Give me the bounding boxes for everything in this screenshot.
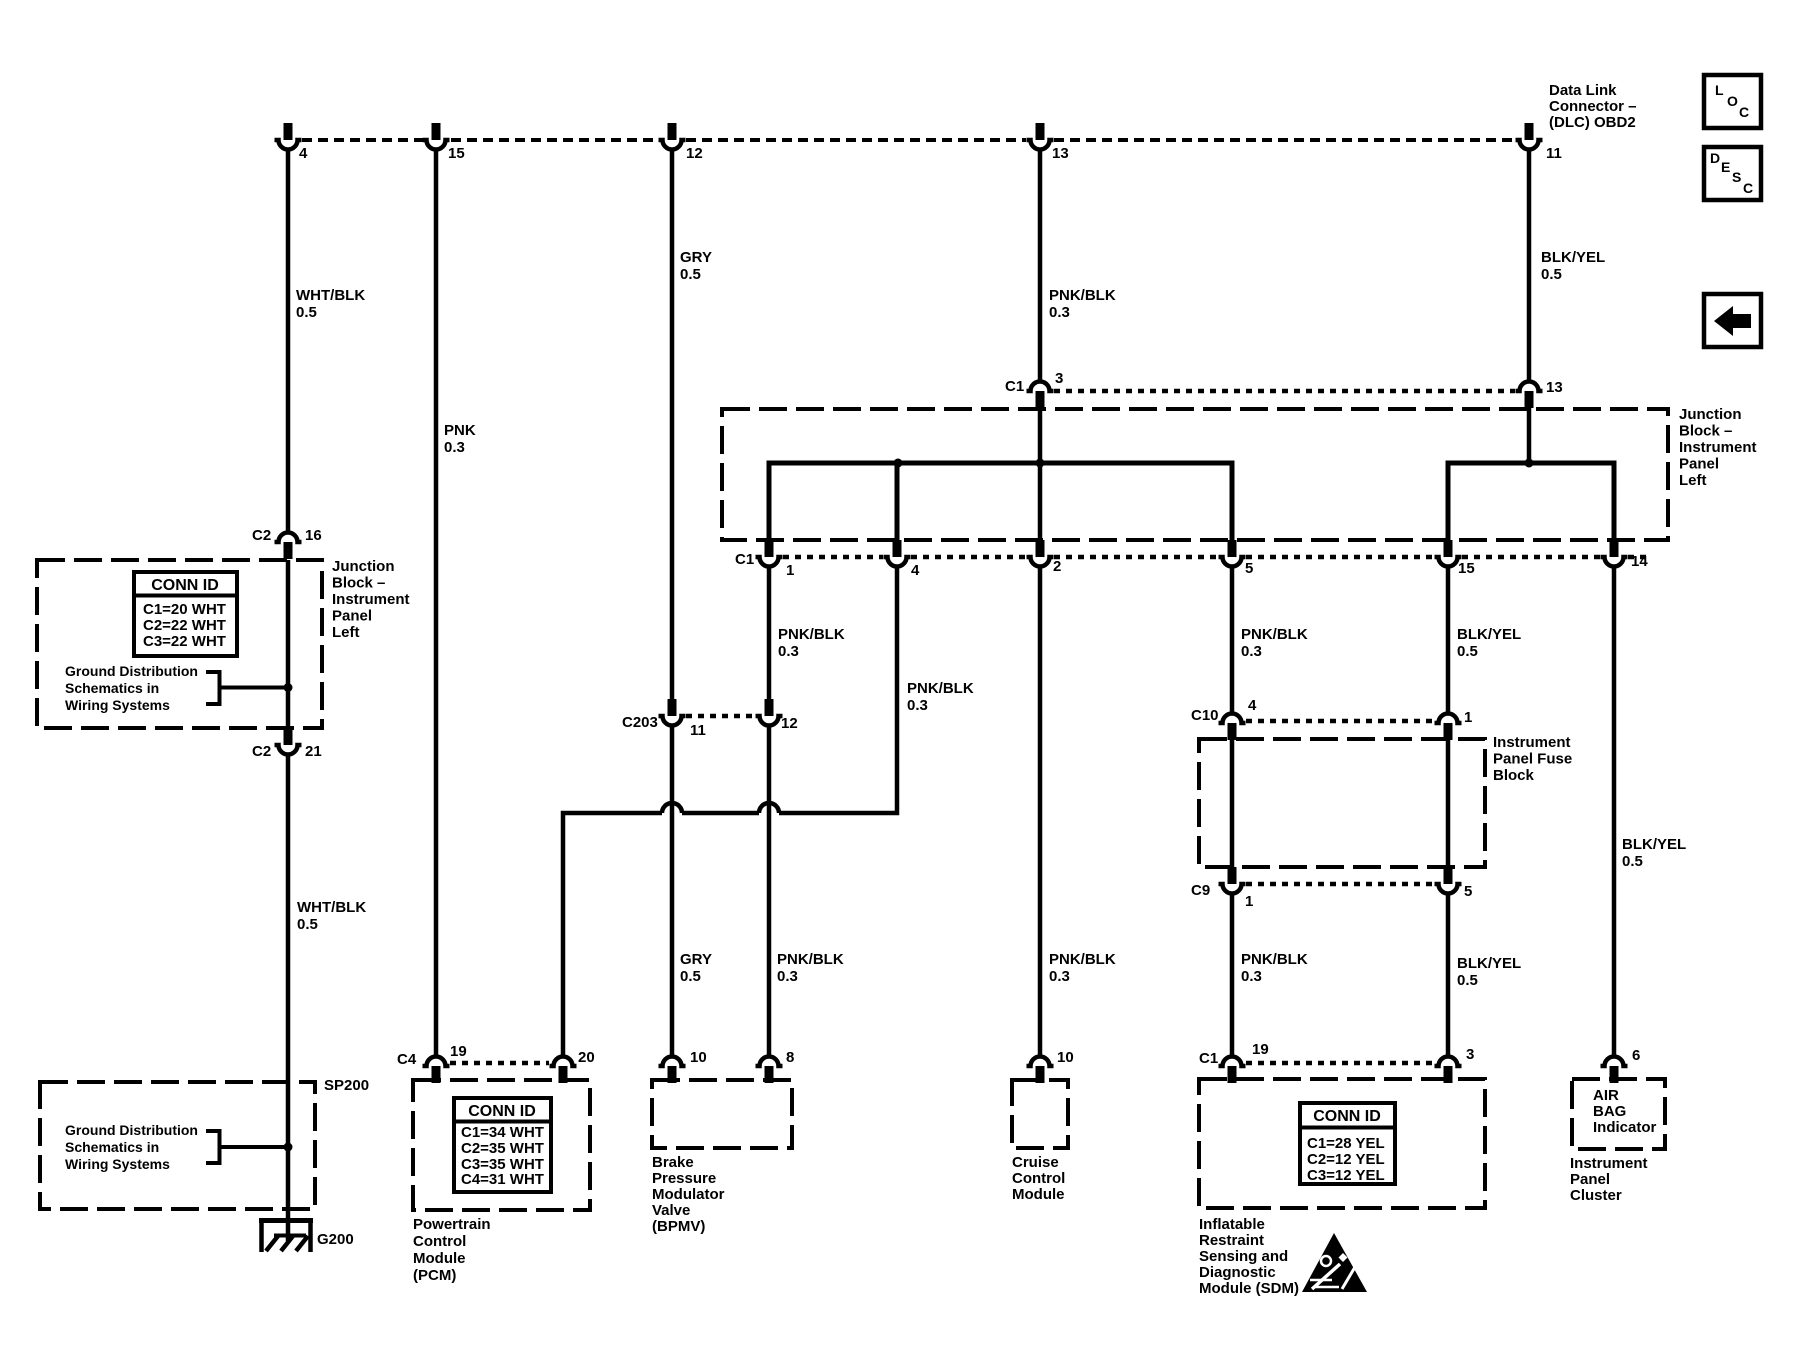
SRS warning triangle	[1302, 1233, 1367, 1292]
svg-text:BLK/YEL0.5: BLK/YEL0.5	[1541, 249, 1605, 283]
svg-text:C1=28 YEL: C1=28 YEL	[1307, 1135, 1385, 1152]
svg-text:14: 14	[1631, 553, 1648, 570]
svg-text:CONN ID: CONN ID	[151, 577, 219, 594]
connector junction block C1 pin 4	[884, 540, 921, 579]
svg-text:PNK/BLK0.3: PNK/BLK0.3	[1241, 626, 1308, 660]
label brake pressure modulator valve	[652, 1154, 725, 1235]
connector junction block pin 13	[1516, 379, 1563, 408]
connector junction block C1 pin 5	[1219, 540, 1254, 577]
label powertrain control module	[413, 1216, 491, 1284]
connector fuse block C10 pin 4	[1191, 697, 1257, 740]
svg-text:12: 12	[686, 145, 703, 162]
wire W10 BLK/YEL vertical x=1529	[1527, 150, 1532, 463]
label junction block instrument panel left (mid)	[1679, 406, 1757, 489]
svg-text:C: C	[1739, 104, 1749, 120]
svg-text:21: 21	[305, 743, 322, 760]
label BLK/YEL 0.5 lower x=1448	[1457, 955, 1521, 989]
svg-text:InflatableRestraintSensing and: InflatableRestraintSensing andDiagnostic…	[1199, 1216, 1299, 1297]
svg-text:PNK/BLK0.3: PNK/BLK0.3	[1241, 951, 1308, 985]
svg-text:PNK/BLK0.3: PNK/BLK0.3	[778, 626, 845, 660]
ground G200	[259, 1218, 354, 1252]
label ground distribution reference lower	[65, 1122, 198, 1172]
svg-text:15: 15	[1458, 560, 1475, 577]
node bus dot at x=1040	[1036, 459, 1045, 468]
label GRY 0.5 upper	[680, 249, 712, 283]
svg-text:E: E	[1721, 159, 1730, 175]
wire internal bus segment 1 of junction block	[769, 463, 1232, 540]
connector junction block C1 pin 14	[1601, 540, 1649, 570]
svg-text:1: 1	[786, 562, 794, 579]
svg-text:CONN ID: CONN ID	[1313, 1108, 1381, 1125]
reference bracket lower	[206, 1131, 288, 1163]
svg-text:L: L	[1715, 82, 1724, 98]
svg-text:C9: C9	[1191, 882, 1210, 899]
wire W3 GRY vertical x=672	[670, 150, 675, 1056]
air bag indicator dashed box	[1572, 1079, 1665, 1149]
label GRY 0.5 lower	[680, 951, 712, 985]
connector junction block C1 pin 1	[735, 540, 794, 579]
svg-text:C2: C2	[252, 527, 271, 544]
label BLK/YEL 0.5 upper x=1529	[1541, 249, 1605, 283]
svg-text:C1=20 WHT: C1=20 WHT	[143, 601, 226, 618]
CONN ID table PCM	[454, 1098, 551, 1192]
label junction block left	[332, 558, 410, 641]
wire W9 BLK/YEL vertical x=1614	[1612, 567, 1617, 1056]
svg-text:D: D	[1710, 150, 1720, 166]
svg-text:C1=34 WHT: C1=34 WHT	[461, 1124, 544, 1141]
label PNK/BLK 0.3 lower x=769	[777, 951, 844, 985]
connector cruise control pin 10	[1027, 1049, 1074, 1083]
svg-text:15: 15	[448, 145, 465, 162]
label PNK 0.3	[444, 422, 476, 456]
label PNK/BLK 0.3 wire W5	[907, 680, 974, 714]
connector DLC pin 13	[1027, 123, 1069, 162]
connector C203 pin 12	[756, 699, 798, 732]
svg-text:C10: C10	[1191, 707, 1219, 724]
connector PCM pin 20	[550, 1049, 595, 1083]
wire dotted line C203	[686, 714, 755, 719]
wire dotted line C10	[1246, 719, 1434, 724]
svg-text:PNK/BLK0.3: PNK/BLK0.3	[907, 680, 974, 714]
instrument panel fuse block dashed box	[1199, 739, 1485, 867]
label BLK/YEL 0.5 x=1614	[1622, 836, 1686, 870]
svg-text:BLK/YEL0.5: BLK/YEL0.5	[1457, 955, 1521, 989]
svg-text:4: 4	[1248, 697, 1257, 714]
svg-text:Ground DistributionSchematics: Ground DistributionSchematics inWiring S…	[65, 1122, 198, 1172]
svg-text:10: 10	[690, 1049, 707, 1066]
back arrow button	[1704, 294, 1761, 347]
label PNK/BLK 0.3 wire W4	[778, 626, 845, 660]
connector SDM C1 pin 19	[1199, 1041, 1269, 1083]
junction block left dashed box	[37, 560, 322, 728]
label PNK/BLK 0.3 wire W11	[1241, 626, 1308, 660]
svg-text:5: 5	[1464, 883, 1472, 900]
wire DLC top dashed interface line	[302, 138, 1515, 142]
svg-text:C2=35 WHT: C2=35 WHT	[461, 1140, 544, 1157]
connector fuse block C10 pin 1	[1435, 709, 1473, 740]
connector instrument panel cluster pin 6	[1601, 1047, 1641, 1083]
svg-text:11: 11	[690, 722, 706, 739]
svg-text:S: S	[1732, 169, 1741, 185]
SDM dashed box	[1199, 1079, 1485, 1208]
wire W6 PNK/BLK vertical x=1040	[1038, 150, 1043, 1056]
svg-text:19: 19	[1252, 1041, 1269, 1058]
connector SDM pin 3	[1435, 1046, 1475, 1083]
connector DLC pin 11	[1516, 123, 1562, 162]
label BLK/YEL 0.5 wire W8	[1457, 626, 1521, 660]
svg-text:4: 4	[299, 145, 308, 162]
connector C203 pin 11	[622, 699, 706, 739]
label instrument panel fuse block	[1493, 734, 1572, 784]
svg-text:11: 11	[1546, 145, 1562, 162]
svg-text:InstrumentPanelCluster: InstrumentPanelCluster	[1570, 1155, 1648, 1204]
connector fuse block C9 pin 5	[1435, 867, 1473, 900]
ground distribution dashed box SP200	[40, 1082, 315, 1209]
svg-text:3: 3	[1055, 370, 1063, 387]
label Data Link Connector (DLC) OBD2	[1549, 82, 1637, 131]
node bus dot at x=898	[894, 459, 903, 468]
connector junction block C2 pin 21	[252, 728, 322, 760]
svg-text:C2=22 WHT: C2=22 WHT	[143, 617, 226, 634]
svg-text:C4: C4	[397, 1051, 417, 1068]
svg-text:PNK/BLK0.3: PNK/BLK0.3	[777, 951, 844, 985]
label PNK/BLK 0.3 lower x=1232	[1241, 951, 1308, 985]
label SP200	[324, 1077, 369, 1094]
label cruise control module	[1012, 1154, 1065, 1203]
svg-text:PowertrainControlModule(PCM): PowertrainControlModule(PCM)	[413, 1216, 491, 1284]
svg-text:PNK/BLK0.3: PNK/BLK0.3	[1049, 951, 1116, 985]
wire dotted line C1 junction block bottom row	[783, 555, 1650, 560]
svg-text:1: 1	[1464, 709, 1472, 726]
connector BPMV pin 8	[756, 1049, 795, 1083]
CONN ID table SDM	[1300, 1103, 1395, 1184]
svg-text:AIRBAGIndicator: AIRBAGIndicator	[1593, 1087, 1657, 1136]
svg-text:C203: C203	[622, 714, 658, 731]
wire W1 WHT/BLK vertical x=288	[286, 150, 291, 1241]
label AIR BAG indicator	[1593, 1087, 1657, 1136]
svg-text:O: O	[1727, 93, 1738, 109]
svg-text:C2: C2	[252, 743, 271, 760]
connector junction block C1 pin 15	[1435, 540, 1475, 577]
svg-text:CruiseControlModule: CruiseControlModule	[1012, 1154, 1065, 1203]
label WHT/BLK 0.5 lower	[297, 899, 366, 933]
cruise control module dashed box	[1012, 1080, 1068, 1148]
svg-text:19: 19	[450, 1043, 467, 1060]
svg-text:C1: C1	[1199, 1050, 1218, 1067]
svg-text:C3=12 YEL: C3=12 YEL	[1307, 1167, 1385, 1184]
svg-text:16: 16	[305, 527, 322, 544]
svg-text:C2=12 YEL: C2=12 YEL	[1307, 1151, 1385, 1168]
svg-text:PNK/BLK0.3: PNK/BLK0.3	[1049, 287, 1116, 321]
node SP200 splice dot	[284, 1143, 293, 1152]
svg-text:GRY0.5: GRY0.5	[680, 249, 712, 283]
connector BPMV pin 10	[659, 1049, 707, 1083]
connector DLC pin 4	[275, 123, 309, 162]
svg-text:Ground DistributionSchematics: Ground DistributionSchematics inWiring S…	[65, 663, 198, 713]
reference bracket upper	[206, 672, 288, 704]
CONN ID table junction block left	[134, 572, 237, 656]
svg-text:20: 20	[578, 1049, 595, 1066]
svg-text:10: 10	[1057, 1049, 1074, 1066]
node splice dot in left junction block	[284, 683, 293, 692]
label PNK/BLK 0.3 lower x=1040	[1049, 951, 1116, 985]
wire dotted line C9	[1246, 882, 1434, 887]
wire W4 PNK/BLK vertical x=769	[767, 567, 772, 1056]
label instrument panel cluster	[1570, 1155, 1648, 1204]
svg-text:12: 12	[781, 715, 798, 732]
svg-text:6: 6	[1632, 1047, 1640, 1064]
connector junction block C1 pin 3	[1005, 370, 1063, 408]
label inflatable restraint SDM	[1199, 1216, 1299, 1297]
PCM dashed box	[413, 1080, 590, 1210]
BPMV dashed box	[652, 1080, 792, 1148]
label PNK/BLK 0.3 upper x=1040	[1049, 287, 1116, 321]
junction block instrument panel left dashed box	[722, 409, 1668, 540]
connector fuse block C9 pin 1	[1191, 867, 1253, 910]
svg-text:C1: C1	[735, 551, 754, 568]
wire internal bus segment 2 of junction block	[1448, 463, 1614, 540]
connector DLC pin 15	[423, 123, 465, 162]
svg-text:BrakePressureModulatorValve(BP: BrakePressureModulatorValve(BPMV)	[652, 1154, 725, 1235]
svg-text:G200: G200	[317, 1231, 354, 1248]
svg-text:8: 8	[786, 1049, 794, 1066]
LOC button	[1704, 75, 1761, 128]
connector PCM C4 pin 19	[397, 1043, 467, 1083]
node bus dot at x=1529	[1525, 459, 1534, 468]
svg-text:C4=31 WHT: C4=31 WHT	[461, 1171, 544, 1188]
svg-text:BLK/YEL0.5: BLK/YEL0.5	[1457, 626, 1521, 660]
svg-text:C1: C1	[1005, 378, 1024, 395]
svg-text:JunctionBlock –InstrumentPanel: JunctionBlock –InstrumentPanelLeft	[1679, 406, 1757, 489]
svg-text:GRY0.5: GRY0.5	[680, 951, 712, 985]
svg-text:PNK0.3: PNK0.3	[444, 422, 476, 456]
svg-text:CONN ID: CONN ID	[468, 1103, 536, 1120]
svg-text:1: 1	[1245, 893, 1253, 910]
wire dotted line PCM C4	[450, 1061, 549, 1066]
label WHT/BLK 0.5 upper	[296, 287, 365, 321]
wire W5 PNK/BLK with corners and hops	[563, 567, 897, 1056]
svg-text:JunctionBlock –InstrumentPanel: JunctionBlock –InstrumentPanelLeft	[332, 558, 410, 641]
svg-text:3: 3	[1466, 1046, 1474, 1063]
svg-text:WHT/BLK0.5: WHT/BLK0.5	[296, 287, 365, 321]
label ground distribution reference upper	[65, 663, 198, 713]
DESC button	[1704, 147, 1761, 200]
svg-text:C3=22 WHT: C3=22 WHT	[143, 633, 226, 650]
svg-text:13: 13	[1052, 145, 1069, 162]
svg-text:2: 2	[1053, 558, 1061, 575]
svg-text:4: 4	[911, 562, 920, 579]
svg-text:5: 5	[1245, 560, 1253, 577]
wire dotted line SDM C1	[1246, 1061, 1434, 1066]
svg-text:C: C	[1743, 180, 1753, 196]
wire W11 PNK/BLK vertical x=1232	[1230, 567, 1235, 1056]
connector junction block C2 pin 16	[252, 527, 322, 559]
svg-text:WHT/BLK0.5: WHT/BLK0.5	[297, 899, 366, 933]
svg-text:BLK/YEL0.5: BLK/YEL0.5	[1622, 836, 1686, 870]
wire W8 BLK/YEL vertical x=1448	[1446, 567, 1451, 1056]
wire W2 PNK vertical x=436	[434, 150, 439, 1056]
svg-text:SP200: SP200	[324, 1077, 369, 1094]
svg-text:InstrumentPanel FuseBlock: InstrumentPanel FuseBlock	[1493, 734, 1572, 784]
svg-text:Data LinkConnector –(DLC) OBD2: Data LinkConnector –(DLC) OBD2	[1549, 82, 1637, 131]
connector junction block C1 pin 2	[1027, 540, 1062, 575]
wire dotted line C1 junction block top	[1054, 389, 1515, 394]
connector DLC pin 12	[659, 123, 703, 162]
svg-text:13: 13	[1546, 379, 1563, 396]
